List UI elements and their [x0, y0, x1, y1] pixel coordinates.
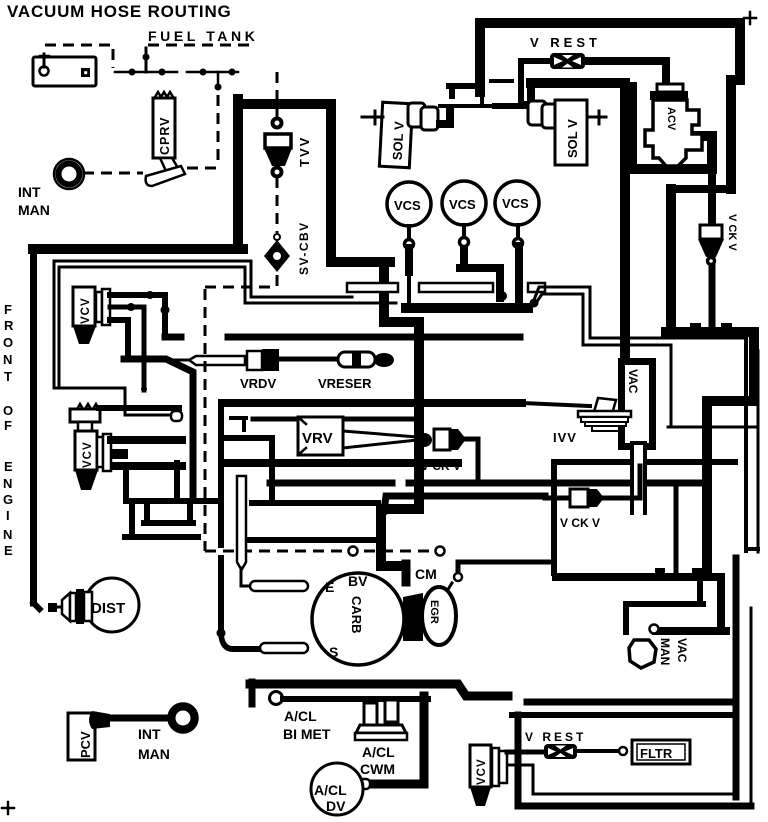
- svg-text:VAC: VAC: [675, 638, 689, 663]
- svg-text:INT: INT: [18, 184, 41, 200]
- svg-text:MAN: MAN: [658, 638, 672, 665]
- svg-text:V CK V: V CK V: [560, 516, 600, 530]
- svg-text:TVV: TVV: [297, 136, 312, 167]
- svg-text:IVV: IVV: [553, 430, 577, 445]
- svg-text:E: E: [4, 459, 13, 474]
- svg-text:S: S: [329, 644, 338, 660]
- svg-text:VRDV: VRDV: [240, 376, 276, 391]
- svg-text:CM: CM: [415, 566, 437, 582]
- svg-text:VCV: VCV: [82, 441, 94, 468]
- svg-text:BI MET: BI MET: [283, 726, 331, 742]
- svg-text:SV-CBV: SV-CBV: [297, 221, 311, 275]
- svg-text:V CK V: V CK V: [421, 459, 461, 473]
- svg-text:INT: INT: [138, 726, 161, 742]
- svg-text:I: I: [6, 508, 10, 523]
- svg-text:N: N: [3, 527, 12, 542]
- svg-text:V CK V: V CK V: [726, 214, 738, 251]
- svg-text:O: O: [3, 403, 13, 418]
- svg-text:VRV: VRV: [302, 430, 333, 447]
- svg-text:DIST: DIST: [91, 600, 125, 617]
- svg-text:SOL V: SOL V: [390, 121, 407, 161]
- svg-text:EGR: EGR: [428, 600, 440, 624]
- svg-text:N: N: [3, 352, 12, 367]
- svg-text:A/CL: A/CL: [362, 744, 395, 760]
- svg-text:ACV: ACV: [665, 107, 677, 131]
- svg-text:VCS: VCS: [502, 196, 529, 211]
- svg-text:VCS: VCS: [394, 198, 421, 213]
- svg-text:PCV: PCV: [78, 731, 93, 758]
- svg-text:T: T: [4, 369, 12, 384]
- svg-text:R: R: [4, 318, 14, 333]
- svg-text:VACUUM HOSE ROUTING: VACUUM HOSE ROUTING: [7, 2, 232, 21]
- svg-text:SOL V: SOL V: [565, 119, 580, 158]
- svg-text:MAN: MAN: [18, 202, 50, 218]
- svg-text:E: E: [4, 543, 13, 558]
- svg-text:CWM: CWM: [360, 761, 395, 777]
- svg-text:BV: BV: [348, 573, 368, 589]
- svg-text:F: F: [4, 302, 12, 317]
- svg-text:VRESER: VRESER: [318, 376, 372, 391]
- svg-text:N: N: [3, 476, 12, 491]
- svg-text:VCS: VCS: [449, 197, 476, 212]
- svg-text:FLTR: FLTR: [640, 746, 673, 761]
- svg-text:CARB: CARB: [349, 596, 364, 634]
- svg-text:E: E: [325, 579, 334, 595]
- svg-text:FUEL TANK: FUEL TANK: [148, 28, 258, 44]
- svg-text:V REST: V REST: [530, 35, 601, 50]
- svg-text:F: F: [4, 418, 12, 433]
- svg-text:O: O: [3, 335, 13, 350]
- svg-text:DV: DV: [326, 798, 346, 814]
- svg-text:VAC: VAC: [626, 369, 640, 394]
- svg-text:VCV: VCV: [80, 297, 92, 324]
- svg-text:A/CL: A/CL: [314, 782, 347, 798]
- svg-text:VCV: VCV: [476, 758, 488, 785]
- svg-text:V REST: V REST: [525, 730, 586, 744]
- svg-text:CPRV: CPRV: [158, 116, 172, 155]
- svg-text:A/CL: A/CL: [284, 708, 317, 724]
- svg-text:MAN: MAN: [138, 746, 170, 762]
- svg-text:G: G: [3, 492, 13, 507]
